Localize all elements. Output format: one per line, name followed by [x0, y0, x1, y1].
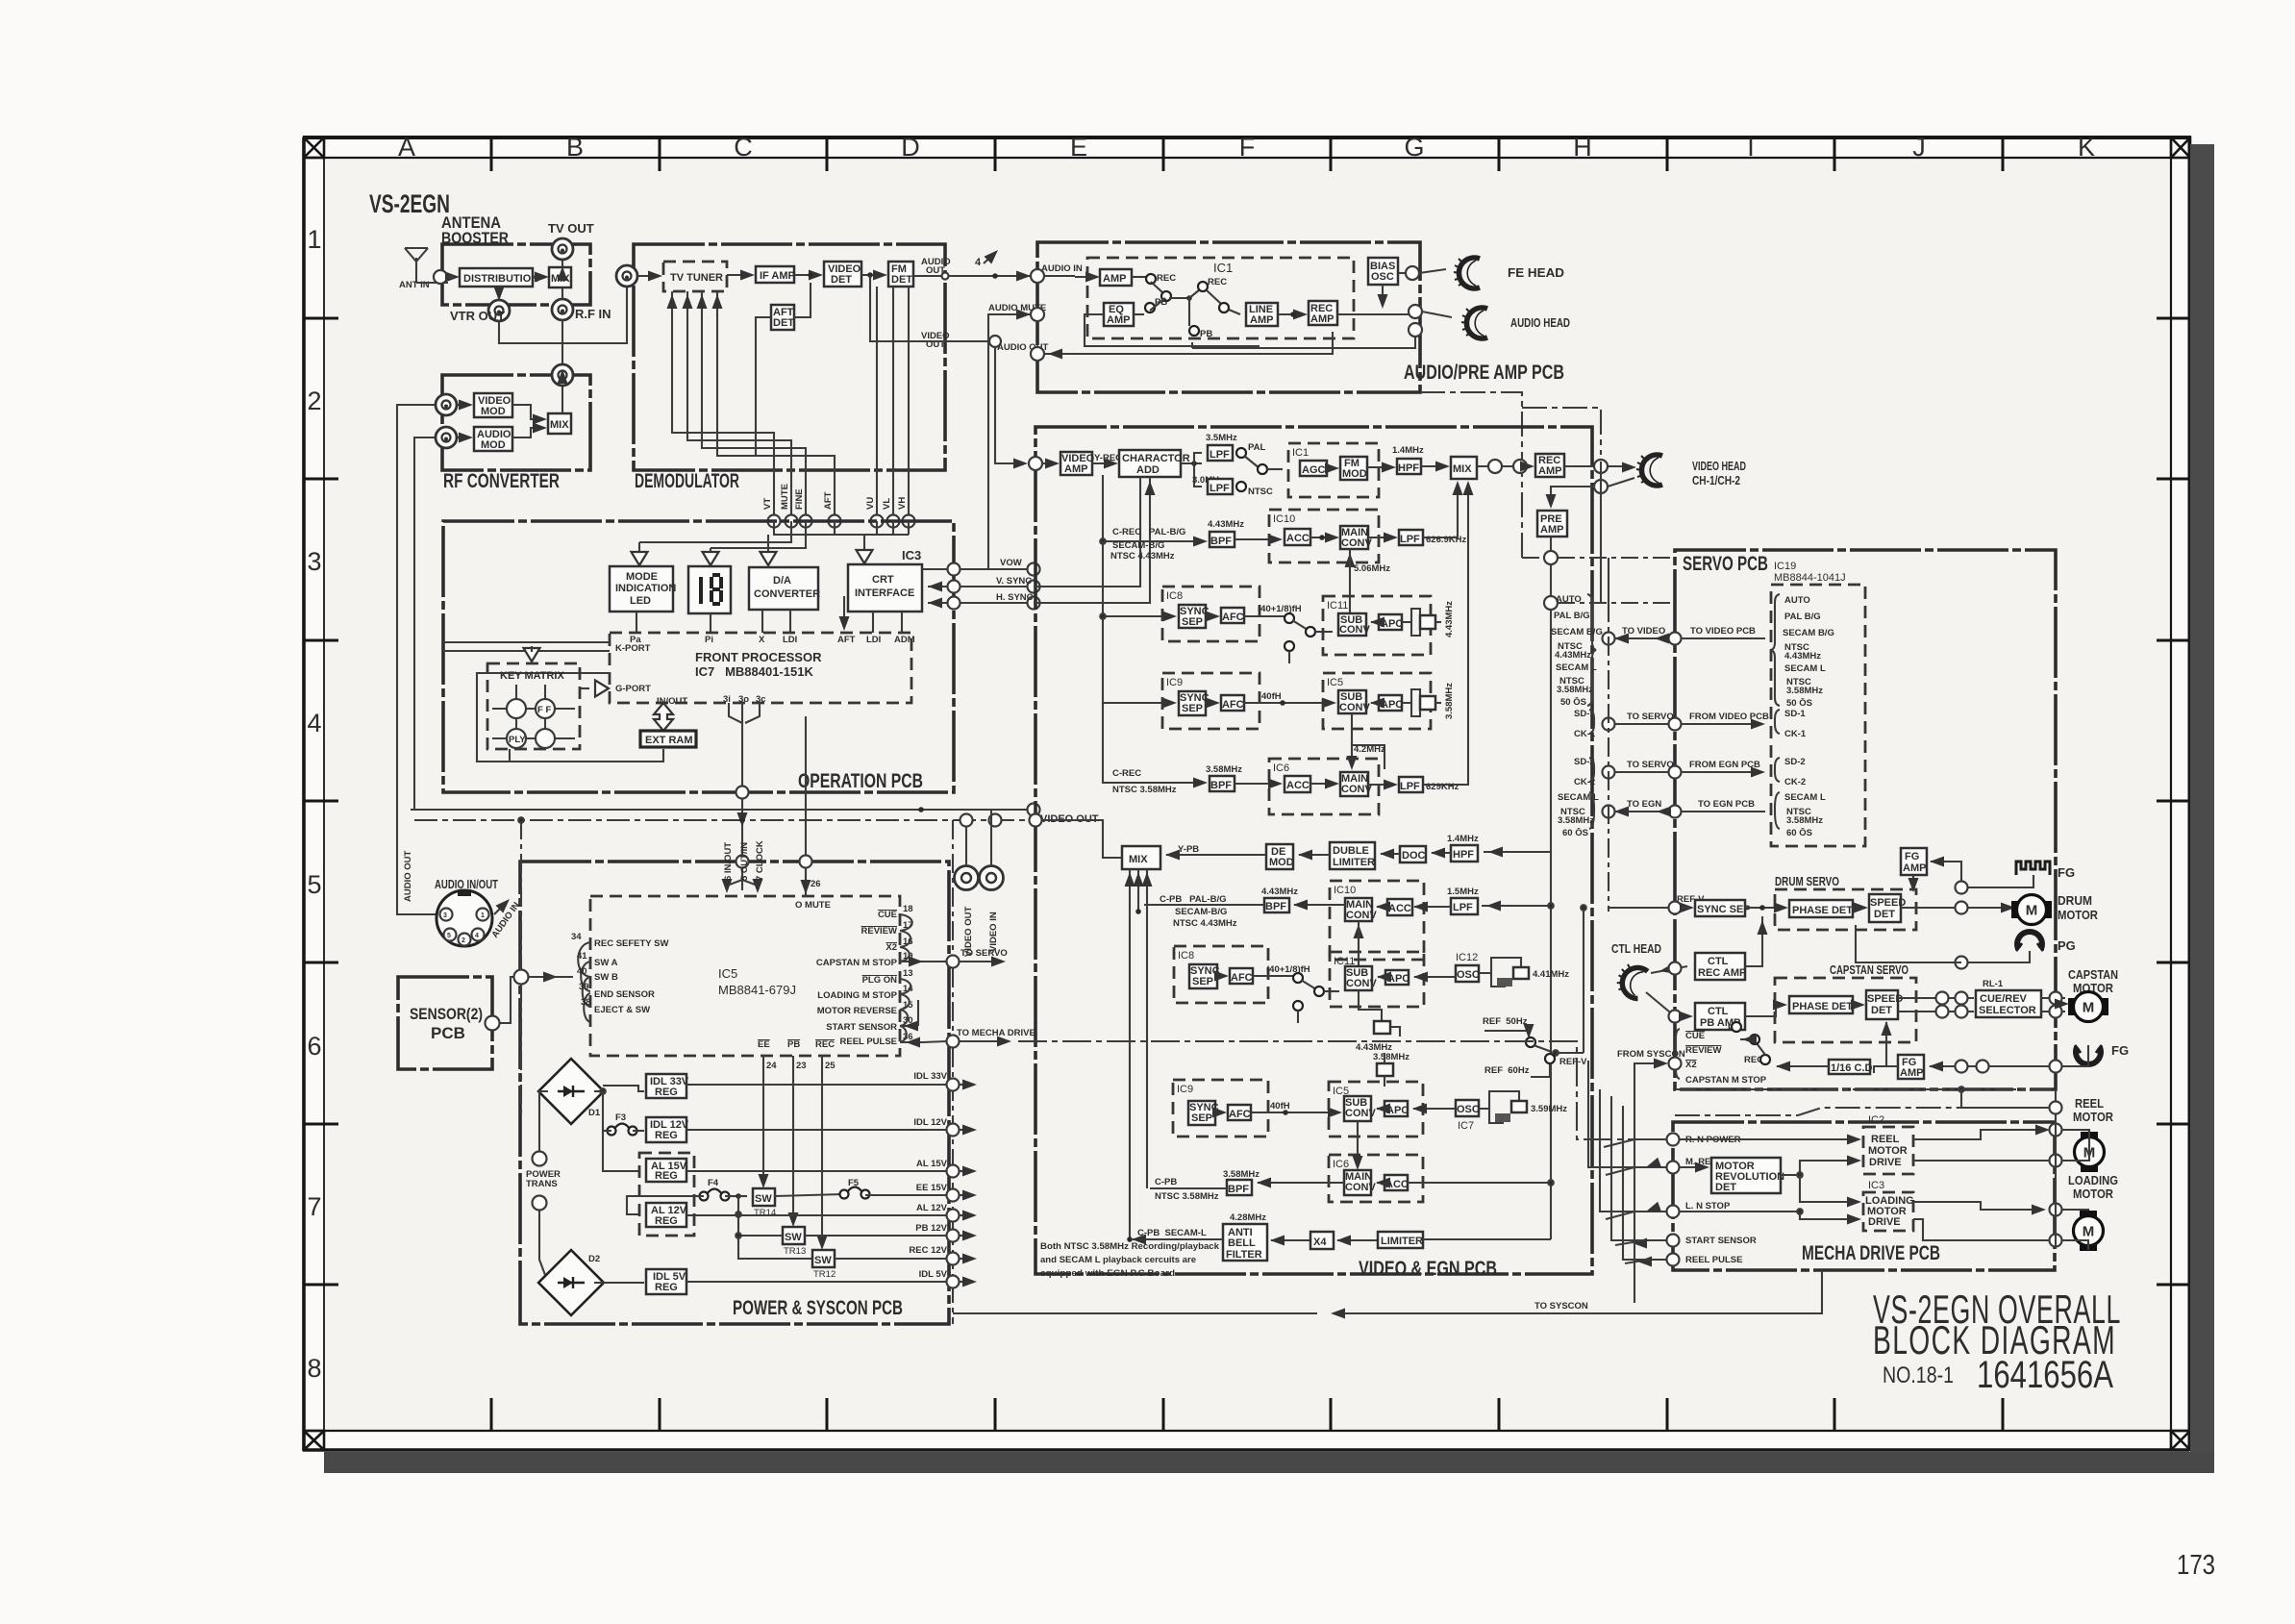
wire pre amp rail down to acc pb2: [1408, 1180, 1554, 1186]
label POWER & SYSCON PCB: [733, 1297, 903, 1319]
motor DRUM MOTOR: [2011, 893, 2099, 925]
svg-text:7: 7: [307, 1192, 321, 1221]
connector R.N POWER: [1667, 1134, 1741, 1146]
label VIDEO OUT bus: [1040, 813, 1099, 825]
block AGC: [1300, 461, 1327, 476]
wire vertical bus x1673: [1608, 558, 1609, 912]
wire servo to mecha vertical dash: [2055, 1089, 2057, 1246]
label REC 12V: [909, 1245, 947, 1256]
svg-text:IC10: IC10: [1334, 885, 1356, 896]
svg-text:CONV: CONV: [1339, 624, 1370, 636]
svg-text:IDL 12V: IDL 12V: [913, 1117, 947, 1128]
arrow AFT down: [839, 616, 850, 631]
block SW TR12: [812, 1250, 836, 1280]
svg-text:TRANS: TRANS: [526, 1179, 558, 1189]
wire capstan m stop dash: [1675, 1087, 2056, 1092]
svg-text:CUE/REV: CUE/REV: [1980, 993, 2028, 1005]
svg-text:IC1: IC1: [1213, 261, 1233, 275]
IC1 dashed box audio: [1087, 258, 1354, 338]
block SYNC SEP rec: [1179, 605, 1210, 628]
block MOTOR REVOLUTION DET: [1711, 1158, 1784, 1193]
label IC5 MB8841-679J: [718, 966, 796, 997]
svg-text:J: J: [1912, 133, 1926, 162]
svg-text:5: 5: [447, 933, 451, 939]
svg-text:TV TUNER: TV TUNER: [670, 272, 723, 284]
svg-text:EJECT & SW: EJECT & SW: [594, 1005, 650, 1015]
svg-text:40fH: 40fH: [1270, 1101, 1290, 1112]
block TV TUNER dashed: [663, 262, 727, 291]
svg-text:F5: F5: [848, 1178, 860, 1188]
dashed group AL regs: [639, 1153, 694, 1236]
wire main conv pb2 to bpf 3.58 pb: [1257, 1178, 1344, 1188]
block PHASE DET capstan: [1789, 996, 1853, 1013]
pg coil drum: [2016, 932, 2076, 953]
block BPF 3.58: [1210, 776, 1235, 791]
svg-text:AMP: AMP: [1538, 465, 1561, 477]
svg-text:3.58MHz: 3.58MHz: [1223, 1169, 1260, 1180]
wire ctl pb amp to phase det: [1745, 1000, 1787, 1017]
svg-text:LED: LED: [630, 595, 651, 607]
label REF-V: [1677, 894, 1705, 905]
left outside mode labels: [1551, 594, 1603, 708]
block CTL PB AMP: [1695, 1003, 1745, 1030]
svg-text:PB: PB: [1200, 329, 1212, 339]
IC8 dashed box rec: [1162, 587, 1260, 641]
svg-text:AFT: AFT: [837, 635, 856, 645]
svg-text:1.5MHz: 1.5MHz: [1447, 887, 1479, 897]
svg-text:CAPSTAN M STOP: CAPSTAN M STOP: [816, 958, 898, 968]
svg-text:SERVO PCB: SERVO PCB: [1683, 553, 1768, 575]
svg-text:MOTOR: MOTOR: [1868, 1145, 1908, 1157]
svg-text:CONVERTER: CONVERTER: [754, 588, 820, 600]
svg-text:BPF: BPF: [1228, 1184, 1249, 1195]
svg-text:FINE: FINE: [794, 488, 805, 510]
svg-text:OSC: OSC: [1457, 969, 1480, 981]
svg-text:MOD: MOD: [1269, 857, 1294, 868]
svg-text:AUDIO IN: AUDIO IN: [1041, 263, 1083, 274]
svg-text:FG: FG: [2058, 865, 2075, 880]
wire motor revolution det to drives: [1781, 1156, 1861, 1208]
svg-text:REEL PULSE: REEL PULSE: [840, 1037, 897, 1047]
svg-text:RF CONVERTER: RF CONVERTER: [443, 470, 560, 492]
svg-text:REG: REG: [655, 1215, 678, 1227]
wire eq amp feed: [1085, 314, 1260, 346]
connector POWER TRANS top: [526, 1152, 561, 1211]
svg-text:LIMITER: LIMITER: [1381, 1236, 1423, 1247]
svg-text:FILTER: FILTER: [1226, 1249, 1262, 1261]
wire c-rec tap from charactor add: [1100, 475, 1208, 788]
label AUDIO IN diagonal: [489, 895, 522, 940]
svg-text:CK-1: CK-1: [1784, 729, 1807, 739]
svg-text:DRIVE: DRIVE: [1869, 1157, 1902, 1168]
wire bpf to acc: [1235, 535, 1283, 545]
wire bpf pb2 to mix: [1150, 1187, 1227, 1189]
block PRE AMP: [1537, 511, 1567, 537]
fg waveform drum: [2016, 862, 2075, 880]
wire sync sep pb to afc: [1214, 971, 1229, 982]
label SENSOR(2) PCB: [410, 1005, 483, 1042]
svg-text:REG: REG: [655, 1087, 678, 1098]
svg-text:OPERATION PCB: OPERATION PCB: [798, 770, 923, 792]
svg-text:MOTOR: MOTOR: [2058, 908, 2099, 922]
wire fg to fg amp: [1930, 857, 2033, 894]
label TV OUT: [548, 221, 594, 236]
label 5.06MHz: [1354, 563, 1390, 574]
wire TO SERVO from video pcb line1: [1603, 712, 1770, 731]
svg-text:IC3: IC3: [1868, 1180, 1884, 1191]
wire al15 rail: [603, 1131, 977, 1178]
svg-text:40: 40: [577, 966, 587, 977]
wire bias osc down: [1378, 285, 1388, 309]
svg-text:TO VIDEO: TO VIDEO: [1622, 626, 1665, 637]
svg-text:K-PORT: K-PORT: [615, 643, 651, 654]
fuse F4: [694, 1178, 747, 1201]
motor LOADING MOTOR: [2074, 1211, 2104, 1251]
svg-text:MOTOR: MOTOR: [2073, 1187, 2114, 1201]
svg-text:SW A: SW A: [594, 958, 618, 968]
svg-text:CHARACTOR: CHARACTOR: [1122, 453, 1190, 464]
label 4.28MHz anti bell: [1230, 1212, 1266, 1223]
svg-text:MOTOR REVERSE: MOTOR REVERSE: [817, 1006, 897, 1016]
block MAIN CONV pb: [1345, 898, 1377, 921]
svg-text:X: X: [759, 635, 765, 645]
connector RF IN: [552, 287, 611, 321]
svg-text:REEL: REEL: [2075, 1096, 2104, 1111]
svg-text:POWER & SYSCON PCB: POWER & SYSCON PCB: [733, 1297, 903, 1319]
wire video head pb to pre amp: [1546, 478, 1635, 509]
svg-text:SYNC SEP: SYNC SEP: [1697, 904, 1751, 915]
svg-text:VOW: VOW: [1000, 558, 1022, 568]
wire lpf629 to mix: [1423, 481, 1474, 785]
svg-text:CAPSTAN: CAPSTAN: [2068, 967, 2118, 982]
wire video in to video amp: [1029, 457, 1060, 470]
svg-text:MB8844-1041J: MB8844-1041J: [1774, 572, 1846, 584]
block MAIN CONV 2: [1340, 772, 1372, 796]
label IC1 video: [1292, 447, 1309, 459]
svg-text:AFC: AFC: [1222, 699, 1244, 711]
label 629KHz: [1426, 782, 1459, 792]
hollow arrow into CRT interface: [857, 535, 873, 563]
svg-text:VH: VH: [897, 497, 908, 510]
switch REC 1: [1132, 273, 1176, 301]
svg-text:MIX: MIX: [1453, 463, 1472, 475]
svg-text:LDI: LDI: [866, 635, 881, 645]
svg-text:5.06MHz: 5.06MHz: [1354, 563, 1390, 574]
label VIDEO & EGN PCB: [1359, 1258, 1497, 1280]
svg-text:6: 6: [307, 1032, 321, 1061]
block ACC rec: [1285, 529, 1310, 545]
svg-text:CK-2: CK-2: [1784, 777, 1806, 787]
block MAIN CONV rec: [1340, 526, 1372, 549]
label 3.58MHz bpf pb: [1223, 1169, 1260, 1180]
svg-text:IC11: IC11: [1327, 600, 1348, 612]
label EE 15V: [916, 1183, 948, 1193]
wire audio pcb bottom to servo run: [1420, 392, 1601, 561]
svg-text:CONV: CONV: [1341, 537, 1372, 549]
label TO SYSCON: [1534, 1301, 1588, 1312]
svg-text:AUDIO IN/OUT: AUDIO IN/OUT: [435, 877, 498, 891]
svg-text:PLY: PLY: [509, 735, 526, 745]
mecha drive PCB box: [1673, 1122, 2055, 1270]
svg-text:NTSC 3.58MHz: NTSC 3.58MHz: [1155, 1191, 1219, 1202]
block APC 2: [1379, 695, 1403, 711]
block REEL MOTOR DRIVE: [1863, 1127, 1913, 1174]
labels ic5 top pins: [723, 840, 831, 911]
svg-text:PHASE DET: PHASE DET: [1792, 905, 1853, 916]
block X4: [1310, 1232, 1334, 1249]
wire mix to rec amp: [1477, 460, 1534, 473]
label IC12: [1456, 952, 1478, 963]
RCA connector VIDEO IN: [980, 810, 1004, 952]
wire sync sep to afc: [1206, 612, 1220, 622]
wire 1/16cd to rec switch: [1776, 1062, 1829, 1072]
svg-text:SECAM L: SECAM L: [1784, 663, 1826, 674]
svg-text:ANT IN: ANT IN: [399, 280, 430, 290]
block CHARACTOR ADD: [1119, 450, 1190, 477]
IC5 dashed box syscon: [590, 896, 900, 1056]
wire mute line into ic5: [742, 867, 811, 894]
svg-text:X2: X2: [886, 942, 897, 953]
bridge D1: [538, 1059, 604, 1124]
wire rn power to reel motor drive: [1680, 1135, 1861, 1145]
svg-text:IC10: IC10: [1273, 513, 1295, 525]
wire acc pb to main conv pb: [1376, 902, 1390, 912]
label TO MECHA DRIVE: [957, 1028, 1035, 1038]
block MIX booster: [549, 267, 571, 287]
wire mix up to connector: [561, 387, 563, 413]
svg-text:ACC: ACC: [1388, 903, 1411, 914]
block IDL 5V REG: [646, 1269, 686, 1294]
block ACC pb: [1387, 899, 1412, 915]
svg-text:CONV: CONV: [1346, 910, 1377, 921]
label IDL 5V: [919, 1269, 948, 1280]
svg-text:VTR OUT: VTR OUT: [450, 309, 505, 323]
row numbers: [307, 225, 321, 1383]
labels IC19 secam block: [1784, 792, 1826, 838]
label ANT IN: [399, 280, 430, 290]
label 3.58MHz mid crystal: [1373, 1052, 1409, 1087]
block EQ AMP: [1104, 303, 1134, 326]
connector START SENSOR: [1667, 1235, 1757, 1247]
wire capstan fg to fg amp: [1929, 1045, 2088, 1073]
wire dash bus to servo: [1522, 462, 1675, 603]
svg-text:IC3: IC3: [902, 548, 921, 562]
svg-text:3.58MHz: 3.58MHz: [1557, 685, 1593, 695]
svg-text:LPF: LPF: [1400, 534, 1420, 545]
label CAPSTAN SERVO: [1830, 962, 1908, 977]
svg-text:NTSC 3.58MHz: NTSC 3.58MHz: [1112, 785, 1177, 795]
svg-text:626.9KHz: 626.9KHz: [1426, 535, 1466, 545]
label C-PB SECAM-L: [1137, 1228, 1207, 1238]
wire fg amp to speed det: [1908, 875, 1919, 892]
svg-text:3.58MHz: 3.58MHz: [1444, 683, 1455, 719]
column ticks top/bottom: [491, 137, 2003, 1431]
wire loading drive to loading motor: [1913, 1202, 2088, 1216]
svg-text:REF 60Hz: REF 60Hz: [1484, 1065, 1530, 1076]
crystal 3.59: [1479, 1091, 1567, 1123]
svg-text:SECAM B/G: SECAM B/G: [1783, 628, 1834, 638]
block BPF 3.58 pb: [1227, 1180, 1252, 1195]
block IF AMP: [756, 266, 795, 283]
svg-text:3.58MHz: 3.58MHz: [1206, 764, 1242, 775]
wire video in upper bus: [411, 804, 1040, 816]
svg-text:PB: PB: [787, 1039, 800, 1050]
wire reel drive to reel motor: [1913, 1124, 2089, 1140]
block LIMITER: [1378, 1232, 1423, 1248]
labels ic5 left pins: [571, 932, 668, 1015]
wire ext ram loop to key matrix: [510, 749, 663, 762]
svg-text:DET: DET: [831, 274, 852, 286]
wire bpf pb left c-pb: [1135, 905, 1264, 914]
block ACC 2: [1285, 776, 1310, 792]
block FG AMP capstan: [1898, 1055, 1924, 1079]
svg-text:H: H: [1573, 133, 1592, 162]
wire charactor to lpf split: [1181, 453, 1202, 487]
KEY MATRIX dashed box: [487, 663, 580, 749]
connector VTR OUT: [450, 287, 510, 323]
svg-text:CONV: CONV: [1345, 1108, 1376, 1119]
svg-text:REC AMP: REC AMP: [1698, 967, 1746, 979]
label DRUM SERVO: [1775, 874, 1839, 888]
svg-text:PAL B/G: PAL B/G: [1554, 611, 1590, 621]
connector audio in on box edge: [1031, 269, 1100, 283]
wire fm mod to hpf: [1367, 462, 1396, 473]
connector L.N STOP: [1667, 1201, 1731, 1218]
label AUDIO IN/OUT: [435, 877, 498, 891]
wire TO EGN line: [1603, 799, 1766, 818]
labels tuner control nets VT MUTE FINE AFT VU VL VH: [762, 484, 908, 510]
svg-text:LDI: LDI: [783, 635, 797, 645]
block SUB CONV 2: [1338, 690, 1370, 713]
label FRONT PROCESSOR IC7: [695, 650, 822, 679]
block 1/16 C.D: [1829, 1060, 1872, 1074]
svg-text:AL 12V: AL 12V: [916, 1203, 948, 1213]
label G-PORT: [615, 684, 651, 694]
svg-text:SD-1: SD-1: [1784, 709, 1806, 719]
svg-text:REG: REG: [655, 1130, 678, 1141]
svg-text:4.2MHz: 4.2MHz: [1354, 744, 1385, 755]
svg-text:SECAM-B/G: SECAM-B/G: [1112, 540, 1164, 551]
svg-text:Pi: Pi: [705, 635, 713, 645]
wire tuner control lines vertical: [672, 287, 909, 521]
svg-text:AFC: AFC: [1222, 612, 1244, 623]
label AUDIO OUT: [921, 257, 951, 276]
wire afc pb2 to sub conv pb2: [1251, 1108, 1342, 1118]
svg-text:25: 25: [825, 1061, 836, 1071]
wire idl33 rail: [686, 1079, 977, 1091]
svg-text:SPEED: SPEED: [1870, 897, 1906, 909]
svg-text:60 ŌS: 60 ŌS: [1786, 828, 1812, 838]
svg-text:38: 38: [581, 997, 591, 1008]
label 3.5MHz: [1206, 433, 1237, 443]
label 4 arrow: [975, 246, 1002, 268]
svg-text:DOC: DOC: [1402, 850, 1426, 862]
svg-text:SECAM-B/G: SECAM-B/G: [1175, 907, 1227, 917]
svg-text:AL 15V: AL 15V: [916, 1159, 948, 1169]
block DISTRIBUTION: [460, 268, 538, 287]
svg-text:50 ŌS: 50 ŌS: [1560, 697, 1586, 708]
wire audio head pb return: [1192, 323, 1422, 348]
svg-text:EE 15V: EE 15V: [916, 1183, 948, 1193]
svg-text:CONV: CONV: [1346, 978, 1377, 989]
svg-text:C: C: [734, 133, 753, 162]
column letters: [398, 133, 2095, 162]
RF CONVERTER pcb box: [442, 375, 590, 470]
svg-text:AMP: AMP: [1900, 1067, 1923, 1079]
svg-text:AFC: AFC: [1231, 972, 1253, 984]
svg-text:AUTO: AUTO: [1784, 595, 1810, 606]
svg-text:D2: D2: [588, 1254, 600, 1264]
wire ctl head to pb amp: [1646, 992, 1693, 1023]
svg-text:LIMITER: LIMITER: [1333, 857, 1375, 868]
wire cue rev to capstan motor: [2041, 992, 2069, 1018]
svg-text:REF 50Hz: REF 50Hz: [1483, 1016, 1528, 1027]
svg-text:FG: FG: [1905, 851, 1919, 862]
svg-text:F: F: [1239, 133, 1256, 162]
brace ic19 modes: [1771, 594, 1780, 706]
ic5 left pin arcs: [578, 942, 590, 1022]
svg-text:FROM VIDEO PCB: FROM VIDEO PCB: [1689, 712, 1769, 722]
wire sync sep to phase det: [1745, 903, 1788, 913]
block LPF pb: [1451, 898, 1478, 914]
motor CAPSTAN MOTOR: [2068, 992, 2108, 1022]
svg-text:4.43MHz: 4.43MHz: [1555, 650, 1591, 661]
svg-text:4.43MHz: 4.43MHz: [1208, 519, 1244, 530]
svg-text:IC1: IC1: [1292, 447, 1309, 459]
svg-text:Y-PB: Y-PB: [1178, 844, 1199, 855]
svg-text:REC: REC: [1208, 277, 1227, 287]
svg-text:AFT: AFT: [823, 491, 834, 510]
wire pre amp rail to limiter: [1423, 1238, 1551, 1240]
svg-text:MOD: MOD: [481, 406, 506, 417]
svg-text:LPF: LPF: [1210, 483, 1230, 494]
svg-text:CAPSTAN M STOP: CAPSTAN M STOP: [1685, 1075, 1767, 1086]
wire afc2 to sub conv 2: [1244, 698, 1336, 709]
svg-text:NTSC 4.43MHz: NTSC 4.43MHz: [1173, 918, 1237, 929]
wire ctl head to rec amp: [1651, 962, 1687, 977]
label IN/OUT: [657, 696, 687, 707]
ic5 right pin numbers: [903, 904, 913, 1042]
svg-text:IC12: IC12: [1456, 952, 1478, 963]
wires blocks down to front processor pins: [636, 596, 902, 633]
svg-text:SEP: SEP: [1182, 703, 1203, 714]
svg-text:KEY MATRIX: KEY MATRIX: [500, 670, 564, 682]
IC10 dashed box rec: [1269, 510, 1379, 562]
title BLOCK DIAGRAM: [1873, 1317, 2116, 1362]
svg-text:24: 24: [766, 1061, 777, 1071]
wire hpf to doc: [1431, 848, 1451, 859]
label AUDIO MUTE: [988, 303, 1046, 313]
svg-text:IC7 MB88401-151K: IC7 MB88401-151K: [695, 664, 813, 679]
hollow double arrow to EXT RAM: [654, 703, 673, 731]
front processor IC7 dashed box: [610, 633, 911, 703]
svg-text:SW: SW: [755, 1193, 772, 1205]
wire apc2 link: [1370, 698, 1384, 709]
wire de mod to mix pb: [1165, 844, 1266, 861]
connector M.REV: [1667, 1157, 1718, 1174]
junction dots on operation pcb top: [768, 515, 915, 528]
svg-text:AMP: AMP: [1250, 314, 1273, 326]
block REC AMP: [1309, 301, 1337, 325]
label 1.5MHz: [1447, 887, 1479, 897]
svg-text:AUDIO HEAD: AUDIO HEAD: [1510, 315, 1570, 330]
block SPEED DET drum: [1869, 894, 1906, 922]
svg-text:SECAM L: SECAM L: [1556, 662, 1597, 673]
svg-text:TV OUT: TV OUT: [548, 221, 594, 236]
brace cue levers: [1676, 1029, 1680, 1079]
label 40fH pb: [1270, 1101, 1290, 1112]
svg-text:REF-V: REF-V: [1559, 1057, 1587, 1067]
